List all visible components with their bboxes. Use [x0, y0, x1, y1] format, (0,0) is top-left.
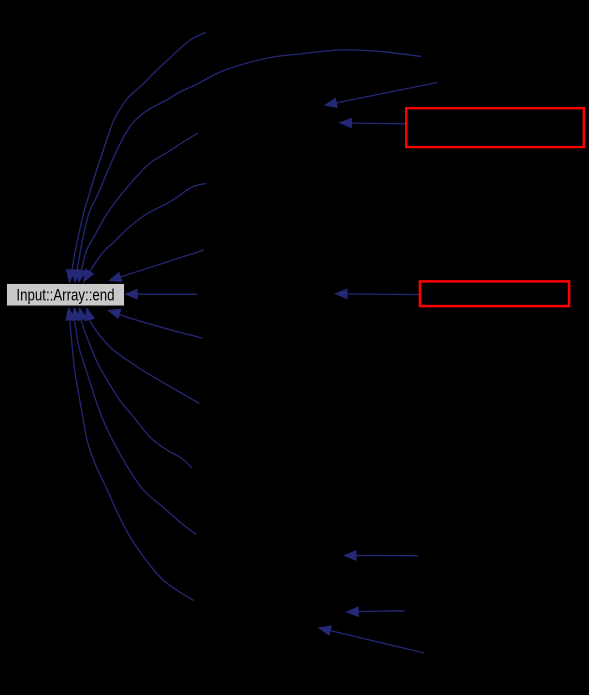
arrowhead L5 — [65, 307, 76, 321]
arrowhead U5 — [108, 272, 123, 282]
arrowhead L1 — [107, 309, 122, 319]
wire edge R5 — [348, 610, 404, 613]
arrowhead R1 — [324, 98, 338, 109]
wire edge L2 — [88, 310, 200, 404]
arrowhead R3 — [334, 289, 348, 300]
wire edge M1 — [127, 293, 197, 295]
node red box 2 (caller, red outline) — [420, 281, 569, 306]
wire edge U1 — [70, 33, 206, 283]
wire edge R4 — [346, 555, 418, 557]
wire edge R6 — [320, 628, 424, 653]
node red box 1 (caller, red outline) — [406, 108, 584, 147]
wire edge U4 — [84, 184, 206, 282]
wire edge U3 — [79, 133, 198, 282]
wire edge L1 — [110, 311, 203, 338]
wire edge L4 — [74, 310, 196, 535]
arrowhead L4 — [71, 307, 82, 321]
arrowhead L3 — [77, 307, 88, 321]
arrowhead R6 — [318, 625, 332, 636]
wire edge L5 — [69, 310, 194, 601]
wire edge R2 — [342, 122, 407, 125]
wire edge U5 — [111, 250, 205, 280]
svg-text:Input::Array::end: Input::Array::end — [16, 286, 114, 305]
wire edge U2 — [75, 50, 421, 282]
wire edge R3 — [337, 293, 421, 296]
arrowhead R2 — [339, 118, 353, 129]
node Input::Array::end (focal node, grey fill) — [7, 284, 125, 307]
arrowhead M1 — [124, 289, 138, 300]
wire edge L3 — [80, 310, 192, 469]
arrowhead U3 — [76, 269, 87, 283]
arrowhead U1 — [66, 269, 77, 283]
wire edge R1 — [326, 83, 437, 106]
arrowhead R5 — [345, 606, 359, 617]
arrowhead L2 — [85, 307, 96, 321]
arrowhead U2 — [72, 269, 83, 283]
arrowhead R4 — [343, 550, 357, 561]
arrowhead U4 — [83, 268, 94, 282]
